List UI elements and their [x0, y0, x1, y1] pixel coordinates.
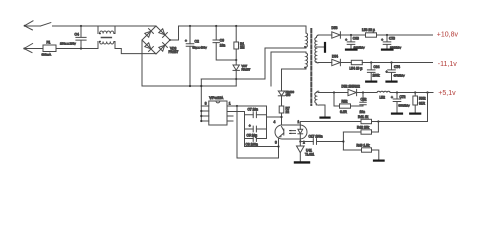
wire	[115, 49, 156, 54]
switch S1	[41, 23, 51, 26]
svg-text:+: +	[345, 38, 347, 42]
AC line arrow bottom	[23, 44, 32, 53]
svg-text:FR157: FR157	[169, 50, 179, 54]
svg-text:TL431: TL431	[305, 153, 314, 157]
svg-text:RN2: RN2	[419, 97, 426, 101]
diode D53	[332, 26, 341, 38]
wire	[377, 34, 433, 36]
svg-text:FR157: FR157	[242, 67, 251, 71]
transformer secondary 2	[315, 93, 325, 118]
wire	[340, 34, 365, 36]
wire	[24, 25, 40, 27]
node	[80, 25, 82, 27]
svg-text:+10,8v: +10,8v	[437, 32, 459, 39]
ground C74	[387, 80, 397, 82]
capacitor C4	[60, 26, 86, 49]
svg-text:8: 8	[205, 101, 207, 105]
svg-text:450: 450	[286, 93, 291, 97]
svg-text:+: +	[249, 124, 251, 128]
ground C84	[366, 80, 376, 82]
resistor R42 row	[343, 125, 378, 134]
transformer core	[310, 29, 312, 105]
optocoupler U2 body	[275, 125, 307, 139]
svg-text:D54: D54	[332, 55, 338, 59]
svg-text:+: +	[386, 70, 388, 74]
node	[200, 85, 202, 87]
svg-text:10n: 10n	[360, 110, 366, 114]
ground TL431	[295, 161, 309, 163]
wire bridge minus down	[141, 40, 143, 86]
capacitor C5	[245, 124, 267, 137]
wire sec1 bottom	[318, 62, 332, 64]
ground sec2	[321, 116, 330, 118]
svg-text:22: 22	[286, 110, 290, 114]
ground C72	[392, 112, 402, 114]
node	[370, 61, 372, 63]
optocoupler led	[298, 125, 303, 139]
IC U1 VIPer22A	[205, 96, 231, 125]
wire aux top to gnd	[270, 52, 272, 86]
capacitor C63	[345, 35, 365, 49]
svg-text:C17 100n: C17 100n	[309, 135, 323, 139]
wire	[237, 106, 267, 139]
inductor L52	[377, 91, 390, 99]
svg-text:F1: F1	[47, 41, 51, 45]
TL431 U41	[297, 142, 315, 162]
wire	[115, 25, 156, 27]
wire opto pin1	[299, 122, 301, 126]
svg-text:+: +	[391, 96, 393, 100]
wire	[357, 92, 377, 94]
svg-text:91R: 91R	[419, 102, 426, 106]
svg-text:C52: C52	[361, 98, 367, 102]
wire	[390, 92, 433, 94]
diode VD7	[233, 49, 251, 86]
svg-text:330/16v: 330/16v	[399, 103, 410, 107]
svg-text:C72: C72	[400, 95, 406, 99]
wire bridge plus output	[170, 26, 306, 40]
capacitor C7	[245, 108, 267, 118]
fuse F1	[42, 41, 57, 57]
capacitor C8	[245, 136, 267, 147]
ground RN2	[410, 112, 420, 114]
transformer primary	[265, 26, 308, 48]
capacitor C72	[391, 93, 410, 114]
capacitor C73	[381, 35, 401, 49]
ground C73	[382, 48, 393, 50]
node	[277, 145, 279, 147]
node	[342, 140, 344, 142]
svg-text:1: 1	[229, 101, 231, 105]
wire sec1 top	[318, 34, 332, 36]
transformer secondary 1	[315, 35, 319, 63]
node	[350, 34, 352, 36]
secondary tap ground	[316, 43, 325, 52]
wire	[53, 25, 157, 27]
svg-text:+: +	[381, 38, 383, 42]
node	[236, 105, 238, 107]
svg-text:C8 100n: C8 100n	[246, 143, 258, 147]
svg-text:C2: C2	[195, 40, 199, 44]
capacitor C74	[386, 63, 405, 82]
node	[414, 91, 416, 93]
svg-text:D53: D53	[332, 26, 338, 30]
svg-text:470/16v: 470/16v	[394, 74, 405, 78]
capacitor C84	[367, 63, 380, 82]
wire	[56, 48, 98, 50]
svg-text:100n x 280v: 100n x 280v	[60, 42, 76, 46]
node	[235, 78, 237, 80]
svg-text:C74: C74	[394, 65, 400, 69]
wire cap group left rail	[245, 112, 279, 147]
bridge diode bottom-right	[158, 43, 167, 52]
common-mode choke L1 top winding	[98, 26, 115, 34]
bridge diode bottom-left	[144, 42, 153, 51]
svg-text:C5 10µ: C5 10µ	[247, 133, 258, 137]
wire sec2 top	[316, 91, 348, 92]
svg-text:C84: C84	[374, 65, 380, 69]
ground rail primary	[142, 85, 236, 87]
node	[396, 91, 398, 93]
wire ref node	[342, 132, 344, 150]
resistor RN2	[413, 93, 426, 114]
node	[386, 34, 388, 36]
optocoupler light arrows	[289, 130, 295, 134]
IC right pins	[227, 106, 245, 121]
snubber C52	[360, 93, 367, 114]
resistor R7	[279, 106, 290, 125]
node	[280, 116, 282, 118]
svg-text:VIPer22A: VIPer22A	[209, 96, 224, 100]
diode D54	[332, 55, 341, 66]
svg-text:100k: 100k	[373, 74, 380, 78]
svg-text:R41 1k: R41 1k	[358, 115, 369, 119]
node	[299, 140, 301, 142]
node	[426, 91, 428, 93]
resistor R1	[234, 26, 245, 50]
svg-text:L54 10 µ: L54 10 µ	[350, 67, 363, 71]
svg-text:C4: C4	[75, 33, 79, 37]
ground C63	[346, 48, 357, 50]
svg-text:C73: C73	[389, 36, 395, 40]
wire sense down	[427, 93, 429, 122]
svg-text:1: 1	[298, 120, 300, 124]
wire source loop	[237, 106, 279, 158]
choke core	[102, 37, 113, 39]
resistor R46 row	[343, 143, 378, 160]
wire opto pin2	[299, 139, 301, 142]
common-mode choke L1 bottom winding	[98, 41, 115, 49]
inductor L54	[350, 60, 363, 70]
diode D52	[348, 89, 357, 95]
svg-text:L52: L52	[380, 96, 386, 100]
svg-text:+: +	[185, 39, 187, 43]
svg-text:4: 4	[274, 120, 276, 124]
svg-text:C63: C63	[353, 36, 359, 40]
svg-text:1M: 1M	[240, 46, 245, 50]
optocoupler transistor	[279, 127, 284, 138]
opto pin labels	[274, 120, 306, 145]
node bridge right	[169, 39, 171, 41]
svg-text:D52 1N5822: D52 1N5822	[342, 85, 360, 89]
bridge diode top-right	[158, 28, 167, 37]
wire	[377, 122, 379, 133]
svg-text:-11,1v: -11,1v	[438, 61, 457, 68]
svg-text:R42 10k: R42 10k	[357, 125, 369, 129]
svg-text:3: 3	[275, 141, 277, 145]
capacitor C17	[300, 135, 343, 145]
node	[390, 61, 392, 63]
IC left pins	[200, 106, 209, 122]
snubber R52	[334, 93, 363, 114]
node	[189, 25, 191, 27]
drain line	[201, 48, 306, 79]
wire	[24, 48, 43, 50]
wire	[340, 62, 351, 64]
node	[235, 59, 237, 61]
diode FB106	[278, 69, 294, 106]
svg-text:R46 1.5k: R46 1.5k	[357, 143, 370, 147]
svg-text:L53 22 µ: L53 22 µ	[362, 28, 375, 32]
svg-text:10n: 10n	[220, 44, 226, 48]
bridge diode top-left	[144, 29, 153, 38]
wire	[362, 62, 432, 64]
label VD8 FR157	[169, 47, 179, 55]
node	[80, 47, 82, 49]
resistor R41 row	[300, 115, 427, 124]
ground R46	[374, 160, 384, 162]
node	[215, 25, 217, 27]
node	[377, 120, 379, 122]
wire vdd to fb chain	[267, 116, 282, 118]
capacitor C2	[185, 26, 207, 86]
node	[362, 91, 364, 93]
svg-text:33µ x 400v: 33µ x 400v	[193, 45, 208, 49]
node	[333, 91, 335, 93]
transformer aux winding	[271, 52, 308, 69]
AC line arrow top	[24, 21, 33, 30]
node	[235, 25, 237, 27]
bridge rectifier VD8 frame	[142, 26, 170, 54]
inductor L53	[362, 28, 377, 37]
svg-text:6.8R: 6.8R	[340, 110, 348, 114]
svg-text:+5,1v: +5,1v	[438, 90, 456, 97]
node	[189, 85, 191, 87]
svg-text:R52: R52	[342, 100, 348, 104]
svg-text:C6: C6	[220, 39, 224, 43]
wire drain bus down	[200, 79, 202, 121]
capacitor C6	[213, 26, 236, 60]
svg-text:C7 10n: C7 10n	[248, 108, 259, 112]
svg-text:630mA: 630mA	[42, 52, 52, 56]
